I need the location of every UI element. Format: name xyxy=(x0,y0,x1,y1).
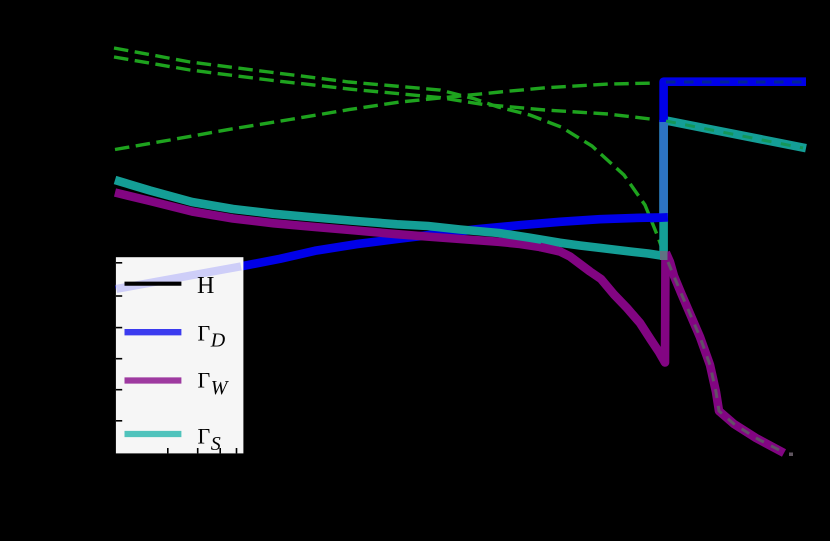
legend handle Gamma_W (purple) xyxy=(125,377,182,383)
svg-text:H: H xyxy=(197,273,214,299)
navy dashed overlay on blue flat branch xyxy=(666,81,802,84)
purple curve Gamma_W (descent after spike) xyxy=(666,253,784,454)
purple curve Gamma_W (left portion, under teal) xyxy=(115,193,550,249)
teal curve Gamma_S (left branch, vertical jump, right branch) xyxy=(115,120,806,255)
legend box xyxy=(116,257,243,453)
mauve dashed overlay on purple tail xyxy=(668,262,783,452)
blue curve Gamma_D (rising left branch) xyxy=(116,217,668,290)
legend handle Gamma_D (blue) xyxy=(125,329,182,335)
y-axis ticks over legend xyxy=(116,263,122,421)
green-teal dashed overlay on teal right branch xyxy=(666,121,803,148)
purple curve Gamma_W (dip, spike and tail) xyxy=(540,247,666,363)
green dashed curve B (second from top, joins teal branch) xyxy=(114,57,652,119)
blue curve Gamma_D (tip of rising branch over jump band) xyxy=(650,213,668,222)
purple curve end dot xyxy=(789,453,793,457)
legend handle Gamma_S (teal) xyxy=(125,431,182,437)
blue curve seen through translucent legend (lavender) xyxy=(116,266,241,289)
slate overlap of purple spike and teal jump segment xyxy=(660,251,668,260)
green dashed curve C (ascending from left, joins top flat branch) xyxy=(115,83,656,150)
x-axis ticks over legend bottom xyxy=(168,448,237,453)
blue curve Gamma_D (vertical jump and flat top branch) xyxy=(664,82,806,122)
green dashed curve A (upper-left, plunging after center) xyxy=(114,48,665,257)
legend handle H (black) xyxy=(125,282,182,286)
steel overlap of blue and teal vertical jump segments xyxy=(659,120,668,214)
